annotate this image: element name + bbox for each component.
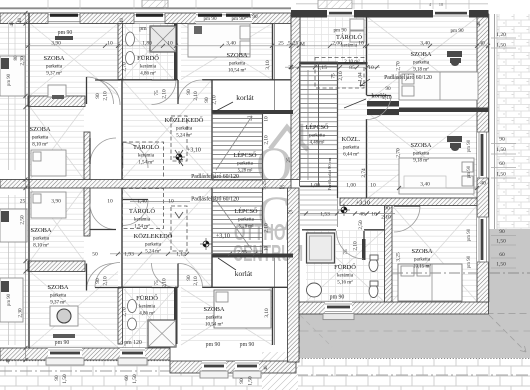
svg-text:90: 90 xyxy=(204,97,210,103)
svg-text:Padlásfeljáró 60/120: Padlásfeljáró 60/120 xyxy=(384,74,432,81)
svg-text:1,40: 1,40 xyxy=(137,199,147,205)
svg-text:25: 25 xyxy=(287,210,293,216)
svg-text:2,70: 2,70 xyxy=(122,62,128,72)
svg-text:90: 90 xyxy=(385,86,391,92)
svg-text:parketta: parketta xyxy=(229,62,246,67)
svg-text:9,37 m²: 9,37 m² xyxy=(50,300,66,306)
svg-text:parketta: parketta xyxy=(206,316,223,321)
svg-text:2,10: 2,10 xyxy=(162,278,168,288)
svg-text:10: 10 xyxy=(264,116,270,122)
svg-text:SZOBA: SZOBA xyxy=(44,55,65,62)
svg-text:90: 90 xyxy=(239,378,245,384)
svg-text:kerámia: kerámia xyxy=(337,274,354,279)
svg-text:40: 40 xyxy=(120,18,125,24)
svg-text:25: 25 xyxy=(278,41,284,47)
svg-text:10: 10 xyxy=(107,41,113,47)
svg-text:10,15 m²: 10,15 m² xyxy=(413,264,431,270)
svg-text:FÜRDŐ: FÜRDŐ xyxy=(137,54,159,62)
svg-text:+3,10: +3,10 xyxy=(216,234,230,240)
svg-text:1,50: 1,50 xyxy=(496,43,506,49)
svg-text:2,10: 2,10 xyxy=(264,223,270,233)
svg-text:korlát: korlát xyxy=(235,269,253,278)
svg-text:SZOBA: SZOBA xyxy=(48,284,69,291)
svg-text:48: 48 xyxy=(359,212,365,218)
svg-text:10: 10 xyxy=(168,199,174,205)
svg-text:6,44 m²: 6,44 m² xyxy=(343,152,359,158)
svg-text:75: 75 xyxy=(331,73,337,79)
svg-text:3,10: 3,10 xyxy=(264,308,270,318)
svg-text:75: 75 xyxy=(154,280,160,286)
svg-text:2,10: 2,10 xyxy=(212,95,218,105)
svg-text:parketta: parketta xyxy=(414,258,431,263)
svg-text:40: 40 xyxy=(477,21,482,27)
svg-text:25: 25 xyxy=(20,199,26,205)
svg-text:1,50: 1,50 xyxy=(132,374,138,384)
svg-text:pm 90: pm 90 xyxy=(240,342,255,348)
svg-text:pm: pm xyxy=(139,26,147,32)
svg-text:9,18 m²: 9,18 m² xyxy=(413,158,429,164)
svg-text:4,86 m²: 4,86 m² xyxy=(139,311,155,317)
svg-text:1,12: 1,12 xyxy=(176,252,186,258)
svg-text:1,15: 1,15 xyxy=(317,65,327,71)
svg-text:90: 90 xyxy=(186,89,192,95)
svg-text:pm 120: pm 120 xyxy=(124,340,142,346)
svg-text:5,16 m²: 5,16 m² xyxy=(337,280,353,286)
svg-text:40: 40 xyxy=(480,181,486,187)
svg-text:2,50: 2,50 xyxy=(358,220,364,230)
svg-text:90: 90 xyxy=(499,137,505,143)
svg-text:1,54 m²: 1,54 m² xyxy=(134,224,150,230)
svg-text:parketta: parketta xyxy=(33,237,50,242)
svg-text:10: 10 xyxy=(371,212,377,218)
svg-text:2,10: 2,10 xyxy=(338,71,344,81)
svg-text:18: 18 xyxy=(439,2,444,7)
svg-text:75: 75 xyxy=(154,90,160,96)
svg-text:3,40: 3,40 xyxy=(226,41,236,47)
svg-text:1,54 m²: 1,54 m² xyxy=(138,160,154,166)
svg-text:parketta: parketta xyxy=(46,65,63,70)
svg-text:60: 60 xyxy=(499,161,505,167)
svg-text:TÁROLÓ: TÁROLÓ xyxy=(133,143,159,151)
svg-text:LÉPCSŐ: LÉPCSŐ xyxy=(233,151,257,159)
svg-text:2,70: 2,70 xyxy=(396,148,402,158)
svg-text:2,30: 2,30 xyxy=(20,56,26,66)
svg-text:2,10: 2,10 xyxy=(103,276,109,286)
svg-text:40: 40 xyxy=(264,365,269,371)
svg-text:25: 25 xyxy=(293,41,299,47)
svg-text:1,50: 1,50 xyxy=(496,147,506,153)
svg-text:2,70: 2,70 xyxy=(396,61,402,71)
svg-text:SZOBA: SZOBA xyxy=(204,306,225,313)
svg-text:3,90: 3,90 xyxy=(51,199,61,205)
svg-text:parketta: parketta xyxy=(238,218,254,223)
svg-text:Férő korlát 90 cm: Férő korlát 90 cm xyxy=(327,157,332,190)
svg-text:+3,10: +3,10 xyxy=(187,148,201,154)
svg-text:SZOBA: SZOBA xyxy=(31,227,52,234)
svg-text:2,50: 2,50 xyxy=(20,215,26,225)
svg-text:2,74: 2,74 xyxy=(361,168,367,178)
svg-text:SZOBA: SZOBA xyxy=(411,142,432,149)
svg-text:kerámia: kerámia xyxy=(139,305,156,310)
svg-text:1,50: 1,50 xyxy=(496,172,506,178)
svg-text:80: 80 xyxy=(14,55,19,61)
svg-text:1,53: 1,53 xyxy=(320,212,330,218)
svg-text:pm 90: pm 90 xyxy=(231,16,245,22)
svg-text:parketta: parketta xyxy=(145,243,162,248)
svg-text:2,00: 2,00 xyxy=(332,41,342,47)
svg-text:1,00: 1,00 xyxy=(310,183,320,189)
svg-text:pm 90: pm 90 xyxy=(333,28,347,34)
svg-text:75: 75 xyxy=(343,249,349,255)
svg-text:korlát: korlát xyxy=(236,93,254,102)
svg-text:10: 10 xyxy=(370,183,376,189)
svg-text:8,10 m²: 8,10 m² xyxy=(33,243,49,249)
svg-text:SZOBA: SZOBA xyxy=(412,248,433,255)
svg-text:KÖZLEKEDŐ: KÖZLEKEDŐ xyxy=(165,116,204,124)
svg-text:10: 10 xyxy=(107,199,113,205)
svg-text:pm 90: pm 90 xyxy=(206,342,221,348)
svg-text:25: 25 xyxy=(286,157,292,163)
svg-text:pm 90: pm 90 xyxy=(467,255,472,268)
svg-text:90: 90 xyxy=(384,206,390,212)
svg-text:1,93: 1,93 xyxy=(124,252,134,258)
svg-text:40: 40 xyxy=(18,18,23,24)
svg-text:40: 40 xyxy=(479,41,485,47)
svg-text:parketta: parketta xyxy=(309,134,325,139)
svg-text:pm 90: pm 90 xyxy=(467,228,472,241)
svg-text:2,70: 2,70 xyxy=(122,307,128,317)
svg-text:5,28 m²: 5,28 m² xyxy=(239,224,254,230)
svg-text:,5: ,5 xyxy=(286,41,290,47)
svg-text:parketta: parketta xyxy=(413,61,430,66)
svg-text:SZOBA: SZOBA xyxy=(411,51,432,58)
svg-text:Padlásfeljáró 60/120: Padlásfeljáró 60/120 xyxy=(191,173,239,180)
svg-text:KÖZLEKEDŐ: KÖZLEKEDŐ xyxy=(134,232,173,240)
svg-text:9,18 m²: 9,18 m² xyxy=(413,67,429,73)
svg-text:90: 90 xyxy=(95,278,101,284)
svg-text:SZOBA: SZOBA xyxy=(30,126,51,133)
svg-text:4,48 m²: 4,48 m² xyxy=(310,140,325,146)
svg-text:25: 25 xyxy=(288,65,294,71)
svg-text:3,25: 3,25 xyxy=(396,252,402,262)
svg-text:KÖZL.: KÖZL. xyxy=(342,136,361,143)
svg-text:2,10: 2,10 xyxy=(381,215,391,221)
svg-text:pm 90: pm 90 xyxy=(450,28,464,34)
svg-text:LÉPCSŐ: LÉPCSŐ xyxy=(305,123,329,131)
svg-text:1,04: 1,04 xyxy=(358,72,364,82)
svg-text:pm 90: pm 90 xyxy=(203,16,217,22)
svg-text:TÁROLÓ: TÁROLÓ xyxy=(129,207,155,215)
svg-text:FÜRDŐ: FÜRDŐ xyxy=(136,294,158,302)
svg-text:+3,10: +3,10 xyxy=(356,201,370,207)
svg-text:LÉPCSŐ: LÉPCSŐ xyxy=(234,207,258,215)
svg-text:pm 90: pm 90 xyxy=(7,73,12,86)
svg-text:5,24 m²: 5,24 m² xyxy=(176,133,192,139)
svg-text:2,10: 2,10 xyxy=(264,135,270,145)
svg-text:60: 60 xyxy=(124,375,130,381)
svg-text:pm 90: pm 90 xyxy=(330,295,345,301)
svg-text:60: 60 xyxy=(499,252,505,258)
svg-text:pm 90: pm 90 xyxy=(55,340,70,346)
svg-text:parketta: parketta xyxy=(176,127,193,132)
svg-text:40: 40 xyxy=(7,358,12,364)
svg-text:2,10: 2,10 xyxy=(382,95,392,101)
svg-text:2,30: 2,30 xyxy=(18,308,24,318)
svg-text:50: 50 xyxy=(92,252,98,258)
svg-text:parketta: parketta xyxy=(413,152,430,157)
svg-text:1,00: 1,00 xyxy=(346,183,356,189)
svg-text:2,10: 2,10 xyxy=(193,276,199,286)
svg-text:3,40: 3,40 xyxy=(420,41,430,47)
svg-text:pm 90: pm 90 xyxy=(467,139,472,152)
svg-text:2,10: 2,10 xyxy=(353,241,359,251)
svg-text:40: 40 xyxy=(10,21,15,27)
svg-text:5,28 m²: 5,28 m² xyxy=(238,168,253,174)
svg-text:10: 10 xyxy=(167,41,173,47)
svg-text:M: M xyxy=(300,42,305,48)
svg-text:10,54 m²: 10,54 m² xyxy=(205,322,223,328)
svg-text:25: 25 xyxy=(279,185,285,191)
svg-text:4,86 m²: 4,86 m² xyxy=(140,71,156,77)
svg-text:parketta: parketta xyxy=(32,136,49,141)
svg-text:90: 90 xyxy=(95,93,101,99)
svg-text:2,10: 2,10 xyxy=(103,91,109,101)
svg-text:Padlásfeljáró 60/120: Padlásfeljáró 60/120 xyxy=(191,196,239,203)
svg-text:1,50: 1,50 xyxy=(248,376,254,386)
svg-text:parketta: parketta xyxy=(237,162,253,167)
svg-text:pm 90: pm 90 xyxy=(7,293,12,306)
svg-text:1,80: 1,80 xyxy=(142,41,152,47)
svg-text:90: 90 xyxy=(186,275,192,281)
svg-text:3,90: 3,90 xyxy=(51,41,61,47)
svg-text:9,37 m²: 9,37 m² xyxy=(46,71,62,77)
svg-text:1,50: 1,50 xyxy=(496,239,506,245)
svg-text:2,10: 2,10 xyxy=(162,89,168,99)
svg-text:SZOBA: SZOBA xyxy=(227,52,248,59)
svg-text:kerámia: kerámia xyxy=(138,154,155,159)
svg-text:kerámia: kerámia xyxy=(140,65,157,70)
svg-text:parketta: parketta xyxy=(343,146,360,151)
svg-text:1,50: 1,50 xyxy=(62,374,68,384)
svg-text:1,20: 1,20 xyxy=(496,32,506,38)
svg-text:5,25: 5,25 xyxy=(262,180,268,190)
svg-text:FÜRDŐ: FÜRDŐ xyxy=(334,263,356,271)
svg-text:10: 10 xyxy=(358,41,364,47)
svg-text:85: 85 xyxy=(349,65,355,71)
svg-text:pm 90: pm 90 xyxy=(58,30,73,36)
svg-text:kerámia: kerámia xyxy=(134,218,151,223)
svg-text:párketta: párketta xyxy=(50,294,67,299)
svg-text:3,40: 3,40 xyxy=(420,182,430,188)
svg-text:90: 90 xyxy=(54,375,60,381)
svg-text:pm 90: pm 90 xyxy=(244,14,258,20)
svg-text:2,10: 2,10 xyxy=(193,91,199,101)
svg-text:10: 10 xyxy=(368,65,374,71)
svg-text:8,10 m²: 8,10 m² xyxy=(32,142,48,148)
svg-text:1,50: 1,50 xyxy=(496,262,506,268)
svg-text:90: 90 xyxy=(499,229,505,235)
svg-text:10: 10 xyxy=(264,246,270,252)
svg-text:3,10: 3,10 xyxy=(265,60,271,70)
svg-text:10,54 m²: 10,54 m² xyxy=(228,68,246,74)
svg-text:2,85: 2,85 xyxy=(237,250,247,256)
svg-text:pm 90: pm 90 xyxy=(467,165,472,178)
